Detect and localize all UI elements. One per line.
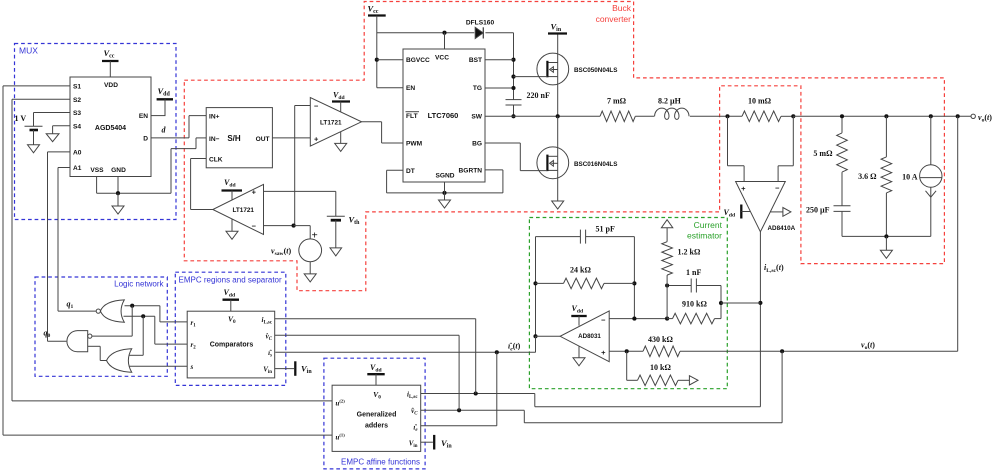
node vo feedback — [956, 114, 960, 118]
node 3.6Ohm top — [884, 114, 888, 118]
resistor 910kOhm — [673, 313, 715, 324]
output arrow at U5 — [771, 211, 783, 213]
wire vC riser to comparators — [458, 335, 460, 410]
wire S3 — [34, 112, 71, 114]
ground below 1V battery — [28, 145, 40, 153]
node BGVCC — [375, 58, 379, 62]
wire ie to adders riser — [496, 352, 498, 426]
wire VSS GND ground rail — [96, 177, 98, 194]
node MUX ground — [116, 191, 120, 195]
svg-text:250 µF: 250 µF — [806, 206, 830, 215]
battery 1V at S3 — [33, 113, 35, 127]
resistor 24kOhm — [564, 278, 605, 289]
node 5mOhm top — [840, 114, 844, 118]
wire inductor to sense — [690, 115, 742, 117]
svg-text:1 V: 1 V — [15, 114, 27, 123]
svg-text:BST: BST — [469, 57, 482, 64]
resistor 10kOhm — [638, 375, 679, 386]
wire plus line with vo feedback — [609, 350, 643, 352]
svg-text:estimator: estimator — [687, 231, 722, 241]
svg-text:EMPC affine functions: EMPC affine functions — [341, 458, 420, 467]
node ie to adders — [495, 350, 499, 354]
svg-text:BSC016N04LS: BSC016N04LS — [574, 161, 617, 168]
wire A1 to q1 — [58, 167, 70, 169]
capacitor 250uF — [834, 205, 851, 207]
svg-text:S3: S3 — [73, 110, 81, 117]
wire D to S/H IN+ (signal d) — [151, 137, 189, 139]
gate G1 NOR (mirrored) — [100, 300, 124, 322]
node 24k left — [533, 281, 537, 285]
svg-text:Comparators: Comparators — [210, 341, 254, 348]
svg-text:A0: A0 — [73, 150, 82, 157]
svg-text:220 nF: 220 nF — [527, 91, 550, 100]
svg-text:S1: S1 — [73, 84, 81, 91]
current source 10A — [920, 165, 942, 187]
wire iLsc riser to comparators — [475, 319, 477, 394]
svg-text:10 kΩ: 10 kΩ — [650, 363, 671, 372]
wire CLK from U3 output — [191, 158, 207, 160]
svg-text:SW: SW — [471, 114, 482, 121]
svg-text:Generalized: Generalized — [357, 412, 397, 419]
svg-text:TG: TG — [473, 85, 482, 92]
svg-text:10 mΩ: 10 mΩ — [748, 97, 772, 106]
svg-text:GND: GND — [111, 167, 126, 174]
ground at U2 — [340, 132, 342, 144]
svg-text:−: − — [252, 221, 257, 230]
wire 10k lead — [678, 379, 689, 381]
ground below vsaw — [309, 262, 311, 274]
wire 1.2k to minus — [666, 286, 668, 319]
arrow supply 10k — [689, 376, 698, 385]
svg-text:8.2 µH: 8.2 µH — [658, 97, 682, 106]
svg-text:+: + — [312, 230, 318, 242]
multiplexer U_mux AGD5404 — [70, 77, 151, 177]
wire DT loop — [387, 169, 403, 171]
svg-text:430 kΩ: 430 kΩ — [648, 335, 673, 344]
svg-text:AGD5404: AGD5404 — [95, 125, 126, 132]
wire BST — [485, 59, 514, 61]
wire sense to loads — [793, 115, 971, 117]
node gate branch — [511, 75, 515, 79]
wire 51pF top — [536, 236, 581, 238]
wire 5mOhm to cap — [841, 172, 843, 206]
svg-text:VDD: VDD — [104, 82, 118, 89]
Logic network region box — [35, 277, 167, 376]
comparators block — [187, 311, 275, 378]
Vdd supply at adders — [367, 373, 384, 375]
node 10k branch — [625, 349, 629, 353]
svg-text:+: + — [741, 184, 746, 193]
resistor 1.2kOhm — [662, 242, 673, 275]
Vcc supply at MUX — [102, 60, 119, 62]
terminal vo(t) — [971, 114, 975, 118]
svg-text:1.2 kΩ: 1.2 kΩ — [678, 248, 701, 257]
battery Vth — [327, 215, 345, 217]
ground at load — [885, 236, 887, 250]
wire BGVCC — [377, 59, 403, 61]
wire EN — [151, 115, 166, 117]
battery Vin at adders — [421, 441, 433, 443]
node vC branch on vo wire — [780, 349, 784, 353]
Vin supply at FETs — [548, 32, 567, 34]
resistor 3.6Ohm — [881, 157, 892, 193]
node iLsc tap — [758, 301, 762, 305]
wire S4 — [53, 125, 70, 127]
ground at SGND — [444, 193, 446, 200]
node 24k right — [632, 281, 636, 285]
capacitor 1nF — [690, 279, 692, 293]
svg-text:AD8410A: AD8410A — [768, 225, 796, 232]
svg-text:−: − — [775, 184, 780, 193]
resistor 5mOhm — [837, 133, 848, 172]
svg-text:7 mΩ: 7 mΩ — [607, 97, 627, 106]
wire U2 output to PWM — [362, 121, 382, 123]
svg-text:VSS: VSS — [90, 167, 104, 174]
wire vo vertical — [957, 116, 959, 351]
svg-text:PWM: PWM — [406, 141, 423, 148]
wire 10A branch — [930, 116, 932, 165]
svg-text:IN+: IN+ — [209, 114, 220, 121]
wire 910k leads — [667, 318, 672, 320]
node VCC stem — [442, 31, 446, 35]
wire S/H OUT to comparator U2 + — [272, 137, 310, 139]
resistor 10mOhm shunt — [742, 111, 781, 122]
svg-text:AD8031: AD8031 — [578, 333, 601, 340]
wire 3.6Ohm branch — [885, 116, 887, 157]
ground below Vth — [330, 248, 342, 256]
Current estimator region box — [529, 218, 727, 389]
node 910k right tap — [719, 301, 723, 305]
wire ie output — [535, 336, 537, 352]
wire U3 - to vsaw node — [264, 225, 294, 227]
ground at MUX — [117, 193, 119, 206]
wire r2 — [155, 343, 187, 345]
comparator U2 LT1721 — [310, 98, 361, 147]
svg-text:+: + — [252, 187, 257, 196]
generalized adders block — [332, 385, 421, 451]
svg-text:converter: converter — [596, 14, 632, 24]
wire vC feedback — [781, 351, 783, 423]
wire — [635, 115, 654, 117]
wire MUX gnd to S/H IN- — [171, 148, 196, 150]
node r2 junction — [141, 314, 145, 318]
resistor 430kOhm — [643, 346, 680, 357]
svg-text:DT: DT — [406, 168, 415, 175]
node vsaw — [292, 224, 296, 228]
wire shunt right to amp - — [792, 116, 794, 166]
svg-text:SGND: SGND — [435, 172, 454, 179]
node 1nF left — [665, 283, 669, 287]
ground at U3 — [231, 219, 233, 231]
ground at S4 — [46, 134, 59, 142]
svg-text:EN: EN — [406, 85, 415, 92]
wire shunt left to amp + — [727, 116, 729, 166]
wire 1nF — [667, 285, 691, 287]
op-amp U5 AD8410A — [736, 182, 786, 232]
node SGND — [442, 191, 446, 195]
wire 10k branch — [626, 351, 628, 380]
svg-text:DFLS160: DFLS160 — [466, 20, 495, 27]
svg-text:+: + — [601, 348, 606, 357]
svg-text:MUX: MUX — [19, 46, 38, 56]
node sense right — [791, 114, 795, 118]
svg-text:24 kΩ: 24 kΩ — [570, 266, 591, 275]
transistor Q1 BSC050N04LS — [537, 53, 569, 85]
ground at U6 — [578, 346, 580, 358]
wire load bottom rail — [842, 235, 931, 237]
resistor 7mOhm — [600, 111, 635, 122]
Vdd supply at U2 — [332, 100, 350, 102]
wire estimator right rail — [633, 237, 635, 319]
node 1.2k bottom at minus — [665, 317, 669, 321]
svg-text:910 kΩ: 910 kΩ — [682, 300, 707, 309]
wire SW output line — [485, 115, 600, 117]
svg-text:adders: adders — [365, 423, 388, 430]
gate G3 OR (mirrored) — [107, 349, 132, 373]
svg-text:Logic network: Logic network — [114, 280, 164, 289]
svg-text:IN−: IN− — [209, 136, 220, 143]
Vdd supply at U5 — [740, 205, 742, 219]
node r1 junction — [130, 304, 134, 308]
node minus rail — [632, 317, 636, 321]
wire r2 drop — [142, 316, 144, 355]
node Q1 source at SW — [556, 114, 560, 118]
svg-text:VCC: VCC — [435, 55, 449, 62]
svg-text:S2: S2 — [73, 97, 81, 104]
svg-text:vo(t): vo(t) — [978, 113, 992, 124]
controller U4 LTC7060 — [403, 49, 485, 182]
node cap-SW — [511, 114, 515, 118]
svg-text:BSC050N04LS: BSC050N04LS — [574, 67, 617, 74]
wire r1 — [160, 321, 187, 323]
wire tap to iLsc — [721, 302, 760, 304]
svg-text:BG: BG — [472, 141, 482, 148]
wire U3 + to Vth — [264, 190, 336, 192]
wire Vcc rail to EN — [376, 16, 378, 88]
svg-text:BGVCC: BGVCC — [406, 57, 430, 64]
svg-text:FLT: FLT — [406, 113, 418, 120]
wire TG — [485, 87, 514, 89]
svg-text:Current: Current — [694, 220, 723, 230]
svg-text:3.6 Ω: 3.6 Ω — [858, 172, 877, 181]
source vsaw(t) — [299, 239, 322, 262]
Buck converter region outline — [184, 2, 944, 291]
svg-text:LTC7060: LTC7060 — [428, 111, 459, 120]
MUX region box — [15, 44, 177, 220]
wire S1 to u1 bus — [3, 85, 70, 87]
svg-text:LT1721: LT1721 — [232, 207, 254, 214]
battery Vin at comparators — [275, 368, 294, 370]
svg-text:D: D — [143, 136, 148, 143]
node vC riser — [457, 408, 461, 412]
wire 5mOhm branch top — [841, 116, 843, 133]
ground at Q2 source — [552, 201, 564, 209]
svg-text:CLK: CLK — [209, 157, 223, 164]
wire Vcc top rail — [377, 32, 475, 34]
wire — [781, 115, 793, 117]
wire iLsc to adders — [535, 406, 761, 408]
svg-text:S/H: S/H — [227, 134, 241, 143]
wire U5 output iLsc — [759, 232, 761, 407]
svg-text:5 mΩ: 5 mΩ — [813, 149, 833, 158]
svg-text:−: − — [314, 102, 319, 111]
Vdd supply at U3 — [222, 189, 243, 191]
svg-text:OUT: OUT — [256, 136, 270, 143]
svg-text:1 nF: 1 nF — [686, 268, 701, 277]
wire estimator left rail — [535, 237, 537, 353]
svg-text:+: + — [314, 134, 319, 143]
svg-text:10 A: 10 A — [902, 173, 918, 182]
svg-text:EN: EN — [139, 113, 148, 120]
diode DFLS160 — [475, 27, 483, 38]
svg-text:Buck: Buck — [612, 3, 632, 13]
wire VCC pin — [444, 33, 446, 49]
wire A0 to q0 — [48, 151, 71, 153]
Vcc supply at buck — [368, 14, 386, 16]
svg-text:−: − — [601, 315, 606, 324]
svg-text:A1: A1 — [73, 165, 82, 172]
node BST — [511, 58, 515, 62]
node iLsc riser — [474, 391, 478, 395]
wire s — [130, 365, 188, 367]
gate G2 NAND-input (mirrored AND) — [67, 331, 88, 352]
svg-text:BGRTN: BGRTN — [459, 167, 483, 174]
wire diode to BST rail — [485, 32, 513, 34]
wire minus line — [609, 318, 667, 320]
node load ground — [884, 234, 888, 238]
wire S2 to u2 bus — [12, 98, 70, 100]
Vdd supply at comparators — [223, 299, 240, 301]
capacitor 220nF — [506, 99, 522, 101]
wire 1.2k leads — [666, 228, 668, 242]
inductor 8.2uH — [655, 108, 689, 119]
wire gate Q1 — [514, 76, 548, 78]
EMPC regions and separator region box — [175, 272, 285, 385]
sample-and-hold S/H — [206, 108, 272, 168]
wire gate Q2 from BG — [485, 142, 520, 144]
svg-text:S4: S4 — [73, 123, 81, 130]
node U6 output at rail — [533, 334, 537, 338]
svg-text:EMPC regions and separator: EMPC regions and separator — [179, 276, 283, 285]
capacitor 51pF — [579, 230, 581, 244]
svg-text:LT1721: LT1721 — [320, 119, 342, 126]
wire r1 drop — [131, 306, 133, 336]
wire G3 out to G2 — [88, 345, 101, 347]
node 10A top — [929, 114, 933, 118]
transistor Q2 BSC016N04LS — [537, 147, 569, 179]
op-amp U6 AD8031 — [560, 311, 609, 362]
svg-text:51 pF: 51 pF — [596, 225, 615, 234]
node sense left — [725, 114, 729, 118]
Vdd supply at U6 — [571, 315, 586, 317]
arrow supply 1.2k — [661, 220, 672, 228]
comparator U3 LT1721 — [213, 184, 264, 234]
wire U6 output — [536, 335, 561, 337]
wire 24k leads — [536, 282, 564, 284]
wire U2 - input riser — [295, 105, 311, 107]
wire SGND pin — [444, 182, 446, 193]
node TG — [511, 86, 515, 90]
svg-text:s: s — [190, 363, 194, 371]
EMPC affine functions region box — [324, 358, 425, 469]
wire node to vsaw source — [294, 225, 311, 227]
Vdd supply at MUX EN — [157, 98, 173, 100]
